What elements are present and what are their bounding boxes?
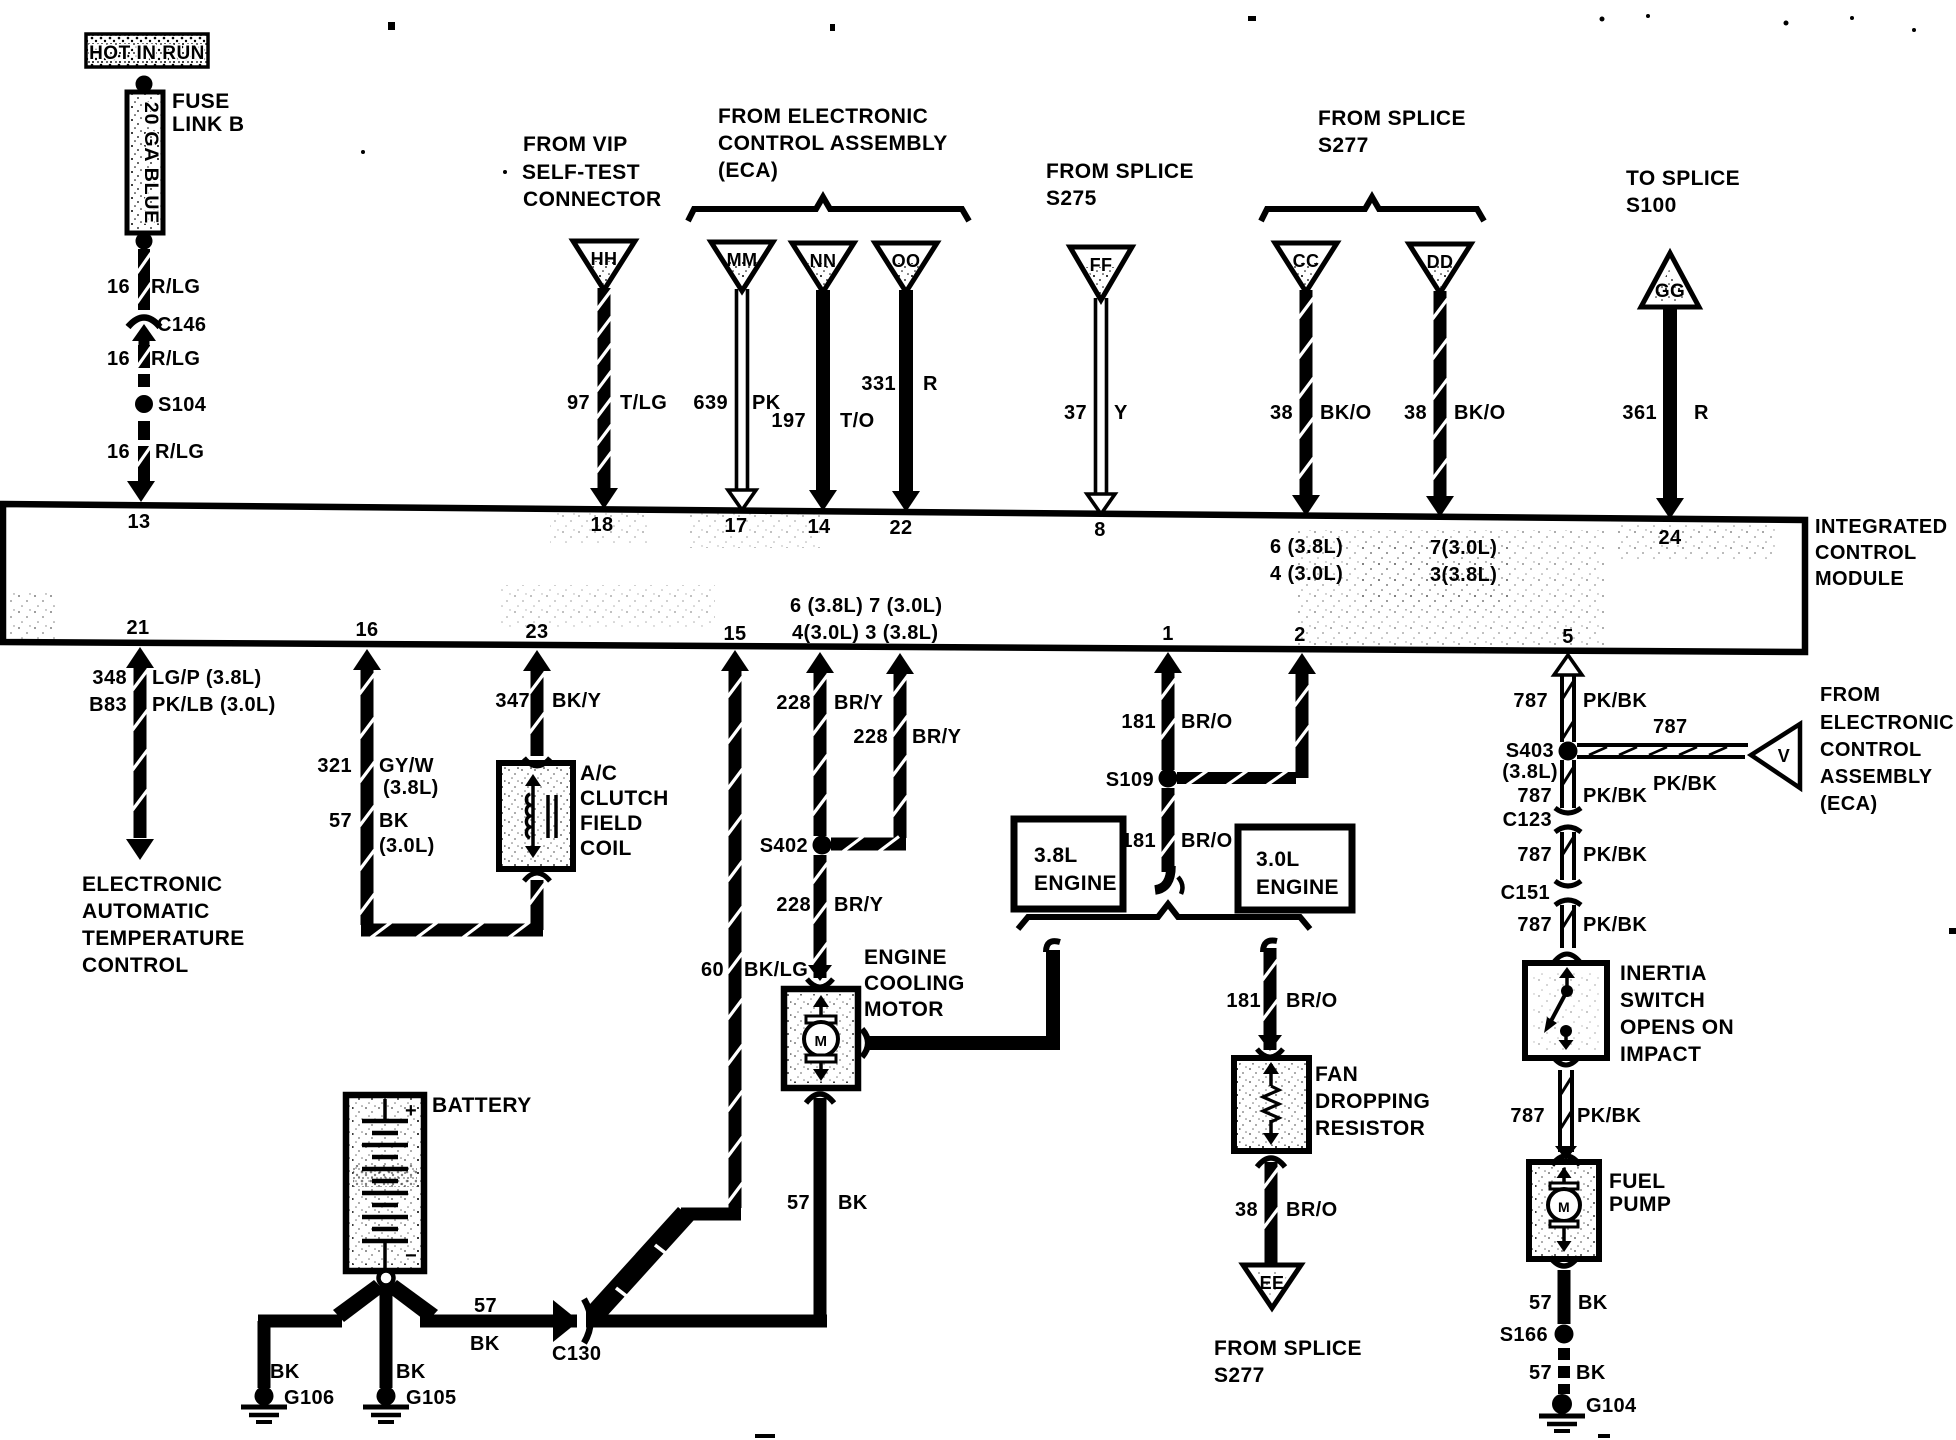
A/C clutch field coil [499, 763, 573, 869]
svg-text:INERTIA: INERTIA [1620, 962, 1707, 985]
connector FF [1070, 247, 1132, 300]
wire S109 to pin 2 [1177, 772, 1296, 784]
svg-text:SELF-TEST: SELF-TEST [522, 161, 640, 184]
svg-text:PUMP: PUMP [1609, 1193, 1671, 1216]
branch wire to fan dropping resistor [1263, 940, 1277, 952]
svg-text:5: 5 [1562, 626, 1574, 648]
svg-text:BR/O: BR/O [1286, 1199, 1338, 1221]
svg-text:FAN: FAN [1315, 1063, 1358, 1086]
connector CC [1275, 243, 1337, 292]
node at fuse bottom [136, 233, 153, 250]
wire 38 BK/O right [1434, 291, 1447, 491]
wire 321 GY/W pin 16 down [353, 649, 381, 670]
svg-text:LINK B: LINK B [172, 113, 244, 136]
svg-text:331: 331 [861, 373, 896, 395]
svg-text:A/C: A/C [580, 762, 617, 785]
wire 361 R [1663, 305, 1677, 498]
3.0L engine box [1238, 827, 1352, 910]
svg-text:CC: CC [1293, 251, 1320, 271]
svg-text:BK/LG: BK/LG [744, 959, 808, 981]
dash segment [138, 421, 150, 440]
svg-text:15: 15 [723, 623, 746, 645]
svg-text:MOTOR: MOTOR [864, 998, 944, 1021]
svg-text:38: 38 [1270, 402, 1293, 424]
motor bottom wire 57 BK [806, 1094, 834, 1103]
arrow into pin 6/4 [1292, 495, 1320, 516]
svg-text:14: 14 [807, 516, 831, 538]
svg-text:S277: S277 [1318, 134, 1369, 157]
svg-text:S166: S166 [1500, 1324, 1548, 1346]
splice S104 [135, 395, 153, 413]
svg-text:(ECA): (ECA) [718, 159, 778, 182]
svg-text:G104: G104 [1586, 1395, 1637, 1417]
svg-text:4(3.0L) 3 (3.8L): 4(3.0L) 3 (3.8L) [792, 622, 938, 644]
svg-text:3.8L: 3.8L [1034, 844, 1078, 867]
svg-text:PK/BK: PK/BK [1577, 1105, 1641, 1127]
svg-text:CONNECTOR: CONNECTOR [523, 188, 662, 211]
svg-text:T/O: T/O [840, 410, 875, 432]
wire 787 S403 to C123 [1560, 760, 1564, 808]
svg-text:R: R [923, 373, 938, 395]
svg-text:181: 181 [1121, 711, 1156, 733]
svg-text:228: 228 [776, 894, 811, 916]
svg-text:347: 347 [495, 690, 530, 712]
arrow into pin 22 [892, 491, 920, 512]
svg-text:16: 16 [107, 276, 130, 298]
engine cooling motor [784, 989, 858, 1088]
svg-text:CONTROL: CONTROL [1820, 739, 1922, 761]
svg-text:23: 23 [525, 621, 548, 643]
svg-text:C146: C146 [157, 314, 206, 336]
svg-text:NN: NN [810, 251, 837, 271]
svg-text:57: 57 [474, 1295, 497, 1317]
svg-text:S275: S275 [1046, 187, 1097, 210]
svg-text:FROM SPLICE: FROM SPLICE [1214, 1337, 1362, 1360]
svg-text:−: − [405, 1245, 417, 1267]
jog and diagonal to C130 junction [681, 1208, 741, 1221]
svg-text:639: 639 [693, 392, 728, 414]
svg-text:TEMPERATURE: TEMPERATURE [82, 927, 245, 950]
svg-text:16: 16 [107, 348, 130, 370]
svg-text:TO SPLICE: TO SPLICE [1626, 167, 1740, 190]
connector EE [1243, 1265, 1301, 1308]
fan dropping resistor [1234, 1058, 1309, 1151]
svg-text:RESISTOR: RESISTOR [1315, 1117, 1425, 1140]
hollow arrow into pin 8 [1087, 494, 1115, 514]
arrow into pin 7/3 [1426, 496, 1454, 517]
wire 57 BK below fuel pump [1550, 1257, 1578, 1266]
svg-text:MM: MM [727, 250, 758, 270]
svg-text:S403: S403 [1506, 740, 1554, 762]
svg-text:SWITCH: SWITCH [1620, 989, 1705, 1012]
connector C123 [1555, 808, 1581, 813]
svg-text:(3.8L): (3.8L) [383, 777, 439, 799]
svg-text:INTEGRATED: INTEGRATED [1815, 516, 1948, 538]
svg-text:BR/Y: BR/Y [834, 894, 884, 916]
svg-text:CLUTCH: CLUTCH [580, 787, 669, 810]
wire 331 R [899, 290, 913, 494]
svg-text:PK/LB (3.0L): PK/LB (3.0L) [152, 694, 276, 716]
svg-text:3.0L: 3.0L [1256, 848, 1300, 871]
svg-text:FIELD: FIELD [580, 812, 643, 835]
svg-text:57: 57 [1529, 1362, 1552, 1384]
svg-text:3(3.8L): 3(3.8L) [1430, 564, 1497, 586]
svg-text:ELECTRONIC: ELECTRONIC [82, 873, 223, 896]
svg-text:6 (3.8L): 6 (3.8L) [1270, 536, 1343, 558]
svg-text:COIL: COIL [580, 837, 632, 860]
scan specks [388, 22, 395, 30]
svg-text:S109: S109 [1106, 769, 1154, 791]
3.8L engine box [1014, 819, 1123, 909]
svg-text:8: 8 [1094, 519, 1106, 541]
arrow into pin 24 [1656, 498, 1684, 519]
svg-text:16: 16 [107, 441, 130, 463]
wire 60 BK/LG pin 15 down [721, 650, 749, 671]
svg-text:2: 2 [1294, 624, 1306, 646]
svg-text:24: 24 [1658, 527, 1682, 549]
svg-text:PK/BK: PK/BK [1653, 773, 1717, 795]
svg-text:(3.8L): (3.8L) [1502, 761, 1558, 783]
splice S166 [1555, 1325, 1574, 1344]
svg-text:HH: HH [591, 249, 618, 269]
HOT IN RUN power tag [86, 34, 208, 67]
svg-text:ENGINE: ENGINE [1256, 876, 1339, 899]
wire 228 BR/Y pin 4/6 down [806, 652, 834, 673]
svg-text:CONTROL ASSEMBLY: CONTROL ASSEMBLY [718, 132, 948, 155]
connector C130 [553, 1300, 579, 1342]
svg-text:228: 228 [853, 726, 888, 748]
svg-text:BR/Y: BR/Y [834, 692, 884, 714]
svg-text:Y: Y [1114, 402, 1128, 424]
battery junction node [379, 1271, 394, 1286]
svg-text:BR/O: BR/O [1286, 990, 1338, 1012]
svg-text:BK: BK [470, 1333, 500, 1355]
wire 16 R/LG upper [138, 249, 150, 310]
svg-text:BK/Y: BK/Y [552, 690, 602, 712]
svg-text:PK/BK: PK/BK [1583, 785, 1647, 807]
svg-text:BK: BK [838, 1192, 868, 1214]
wire up to A/C coil bottom [531, 880, 544, 930]
wire 228 BR/Y to cooling motor [814, 855, 827, 978]
svg-text:OO: OO [892, 251, 921, 271]
svg-text:C130: C130 [552, 1343, 601, 1365]
svg-text:BK: BK [396, 1361, 426, 1383]
svg-text:21: 21 [126, 617, 149, 639]
svg-text:38: 38 [1404, 402, 1427, 424]
wire 37 Y hollow [1094, 298, 1098, 496]
svg-text:(3.0L): (3.0L) [379, 835, 435, 857]
svg-text:FUSE: FUSE [172, 90, 230, 113]
arrow into pin 18 [590, 488, 618, 509]
svg-text:787: 787 [1517, 914, 1552, 936]
svg-text:13: 13 [127, 511, 150, 533]
wire 181 BR/O pin 1 down [1154, 652, 1182, 673]
svg-text:97: 97 [567, 392, 590, 414]
wire 38 BR/O to EE [1257, 1158, 1285, 1167]
dashed wire 57 BK to G104 [1558, 1348, 1570, 1360]
wire 57 BK horizontal [420, 1315, 827, 1328]
wire 787 inertia to fuel pump [1553, 1057, 1579, 1065]
svg-text:37: 37 [1064, 402, 1087, 424]
svg-text:787: 787 [1513, 690, 1548, 712]
svg-text:+: + [405, 1100, 417, 1122]
connector C146 [128, 318, 160, 328]
wire 38 BK/O left [1300, 290, 1313, 490]
svg-text:PK/BK: PK/BK [1583, 844, 1647, 866]
connector DD [1409, 244, 1471, 293]
connector NN [792, 243, 854, 292]
svg-text:BK/O: BK/O [1320, 402, 1372, 424]
svg-text:GY/W: GY/W [379, 755, 434, 777]
svg-text:ENGINE: ENGINE [864, 946, 947, 969]
svg-text:MODULE: MODULE [1815, 568, 1904, 590]
svg-text:CONTROL: CONTROL [82, 954, 189, 977]
ground wire left to G106 [258, 1315, 342, 1328]
svg-text:ASSEMBLY: ASSEMBLY [1820, 766, 1933, 788]
svg-text:57: 57 [787, 1192, 810, 1214]
inertia switch [1525, 963, 1607, 1058]
dash segment [138, 374, 150, 387]
connector V from ECA [1751, 724, 1800, 788]
svg-text:228: 228 [776, 692, 811, 714]
svg-text:BK/O: BK/O [1454, 402, 1506, 424]
svg-text:7(3.0L): 7(3.0L) [1430, 537, 1497, 559]
wire 197 T/O [816, 290, 830, 493]
svg-text:16: 16 [355, 619, 378, 641]
ground G104 [1552, 1394, 1572, 1414]
svg-text:38: 38 [1235, 1199, 1258, 1221]
svg-text:LG/P (3.8L): LG/P (3.8L) [152, 667, 262, 689]
svg-text:S100: S100 [1626, 194, 1677, 217]
svg-text:M: M [815, 1033, 828, 1050]
svg-text:787: 787 [1653, 716, 1688, 738]
svg-text:CONTROL: CONTROL [1815, 542, 1917, 564]
svg-text:60: 60 [701, 959, 724, 981]
svg-text:6 (3.8L) 7 (3.0L): 6 (3.8L) 7 (3.0L) [790, 595, 942, 617]
svg-text:197: 197 [771, 410, 806, 432]
svg-text:181: 181 [1121, 830, 1156, 852]
svg-text:348: 348 [92, 667, 127, 689]
svg-text:BK: BK [379, 810, 409, 832]
svg-text:FROM: FROM [1820, 684, 1880, 706]
svg-text:FROM SPLICE: FROM SPLICE [1046, 160, 1194, 183]
wire 787 PK/BK pin 5 [1554, 655, 1582, 675]
connector HH [573, 241, 635, 290]
svg-text:C151: C151 [1501, 882, 1550, 904]
splice S402 [813, 836, 832, 855]
svg-text:S104: S104 [158, 394, 207, 416]
svg-text:BATTERY: BATTERY [432, 1094, 532, 1117]
wire S109 down to brace hook [1162, 788, 1175, 872]
fuel pump [1529, 1162, 1599, 1259]
svg-text:G106: G106 [284, 1387, 335, 1409]
svg-text:M: M [1558, 1199, 1570, 1215]
svg-text:B83: B83 [89, 694, 127, 716]
fuse link B 20 GA BLUE [127, 92, 163, 233]
svg-text:S277: S277 [1214, 1364, 1265, 1387]
svg-text:V: V [1778, 746, 1790, 766]
svg-text:BK: BK [270, 1361, 300, 1383]
svg-text:BR/O: BR/O [1181, 711, 1233, 733]
brace under engine boxes [1018, 904, 1310, 929]
brace over MM NN OO [688, 197, 969, 221]
svg-text:57: 57 [1529, 1292, 1552, 1314]
svg-text:4 (3.0L): 4 (3.0L) [1270, 563, 1343, 585]
svg-text:GG: GG [1655, 281, 1685, 302]
arrow into pin 13 [127, 481, 155, 502]
svg-text:787: 787 [1510, 1105, 1545, 1127]
wire elbow bottom horizontal [361, 924, 543, 937]
battery wires fanout [333, 1280, 385, 1322]
svg-text:G105: G105 [406, 1387, 457, 1409]
svg-text:FUEL: FUEL [1609, 1170, 1665, 1193]
svg-text:361: 361 [1622, 402, 1657, 424]
svg-text:R/LG: R/LG [155, 441, 204, 463]
wire 347 BK/Y pin 23 down [523, 650, 551, 671]
node at fuse top [136, 76, 153, 93]
wire 16 R/LG middle [138, 345, 150, 368]
connector C151 [1555, 881, 1581, 886]
integrated control module box [3, 504, 1805, 652]
svg-text:18: 18 [590, 514, 613, 536]
wire 97 T/LG [598, 288, 611, 484]
svg-text:FROM VIP: FROM VIP [523, 133, 628, 156]
connector OO [875, 243, 937, 292]
svg-text:ENGINE: ENGINE [1034, 872, 1117, 895]
wire 787 C151 to inertia switch [1560, 905, 1564, 948]
svg-text:321: 321 [317, 755, 352, 777]
svg-text:DD: DD [1427, 252, 1454, 272]
svg-text:PK/BK: PK/BK [1583, 690, 1647, 712]
svg-text:57: 57 [329, 810, 352, 832]
connector GG to splice S100 [1641, 253, 1699, 307]
svg-text:BK: BK [1578, 1292, 1608, 1314]
svg-text:BR/O: BR/O [1181, 830, 1233, 852]
wire 639 PK hollow [735, 289, 739, 492]
svg-text:T/LG: T/LG [620, 392, 667, 414]
svg-text:PK/BK: PK/BK [1583, 914, 1647, 936]
connector MM [711, 242, 773, 291]
svg-text:FROM ELECTRONIC: FROM ELECTRONIC [718, 105, 928, 128]
svg-text:R/LG: R/LG [151, 348, 200, 370]
svg-text:IMPACT: IMPACT [1620, 1043, 1701, 1066]
brace over CC DD [1261, 197, 1484, 221]
wire 348 LG/P to EATC [126, 647, 154, 668]
svg-text:AUTOMATIC: AUTOMATIC [82, 900, 210, 923]
svg-text:C123: C123 [1503, 809, 1552, 831]
svg-text:787: 787 [1517, 785, 1552, 807]
svg-text:BR/Y: BR/Y [912, 726, 962, 748]
svg-text:(ECA): (ECA) [1820, 793, 1878, 815]
svg-text:17: 17 [724, 515, 747, 537]
arrow into pin 14 [809, 490, 837, 511]
wire 787 to ECA V [1577, 743, 1748, 747]
svg-text:ELECTRONIC: ELECTRONIC [1820, 712, 1954, 734]
svg-text:FROM SPLICE: FROM SPLICE [1318, 107, 1466, 130]
svg-text:EE: EE [1260, 1273, 1285, 1293]
svg-text:HOT IN RUN: HOT IN RUN [89, 43, 205, 64]
svg-text:S402: S402 [760, 835, 808, 857]
splice S109 [1159, 769, 1178, 788]
svg-text:787: 787 [1517, 844, 1552, 866]
svg-text:DROPPING: DROPPING [1315, 1090, 1430, 1113]
svg-text:R: R [1694, 402, 1709, 424]
svg-text:BK: BK [1576, 1362, 1606, 1384]
svg-text:COOLING: COOLING [864, 972, 965, 995]
wire 228 BR/Y pin 3/7 down with elbow [886, 653, 914, 674]
svg-text:FF: FF [1090, 255, 1113, 275]
wire 787 C123 to C151 [1560, 832, 1564, 880]
svg-text:OPENS ON: OPENS ON [1620, 1016, 1734, 1039]
svg-text:181: 181 [1226, 990, 1261, 1012]
battery [346, 1095, 424, 1271]
hollow arrow into pin 17 [728, 490, 756, 510]
motor output wire to engine brace [862, 1029, 868, 1057]
svg-text:1: 1 [1162, 623, 1174, 645]
svg-text:20 GA BLUE: 20 GA BLUE [140, 102, 162, 224]
svg-text:R/LG: R/LG [151, 276, 200, 298]
splice S403 (3.8L) [1559, 742, 1578, 761]
svg-text:22: 22 [889, 517, 912, 539]
